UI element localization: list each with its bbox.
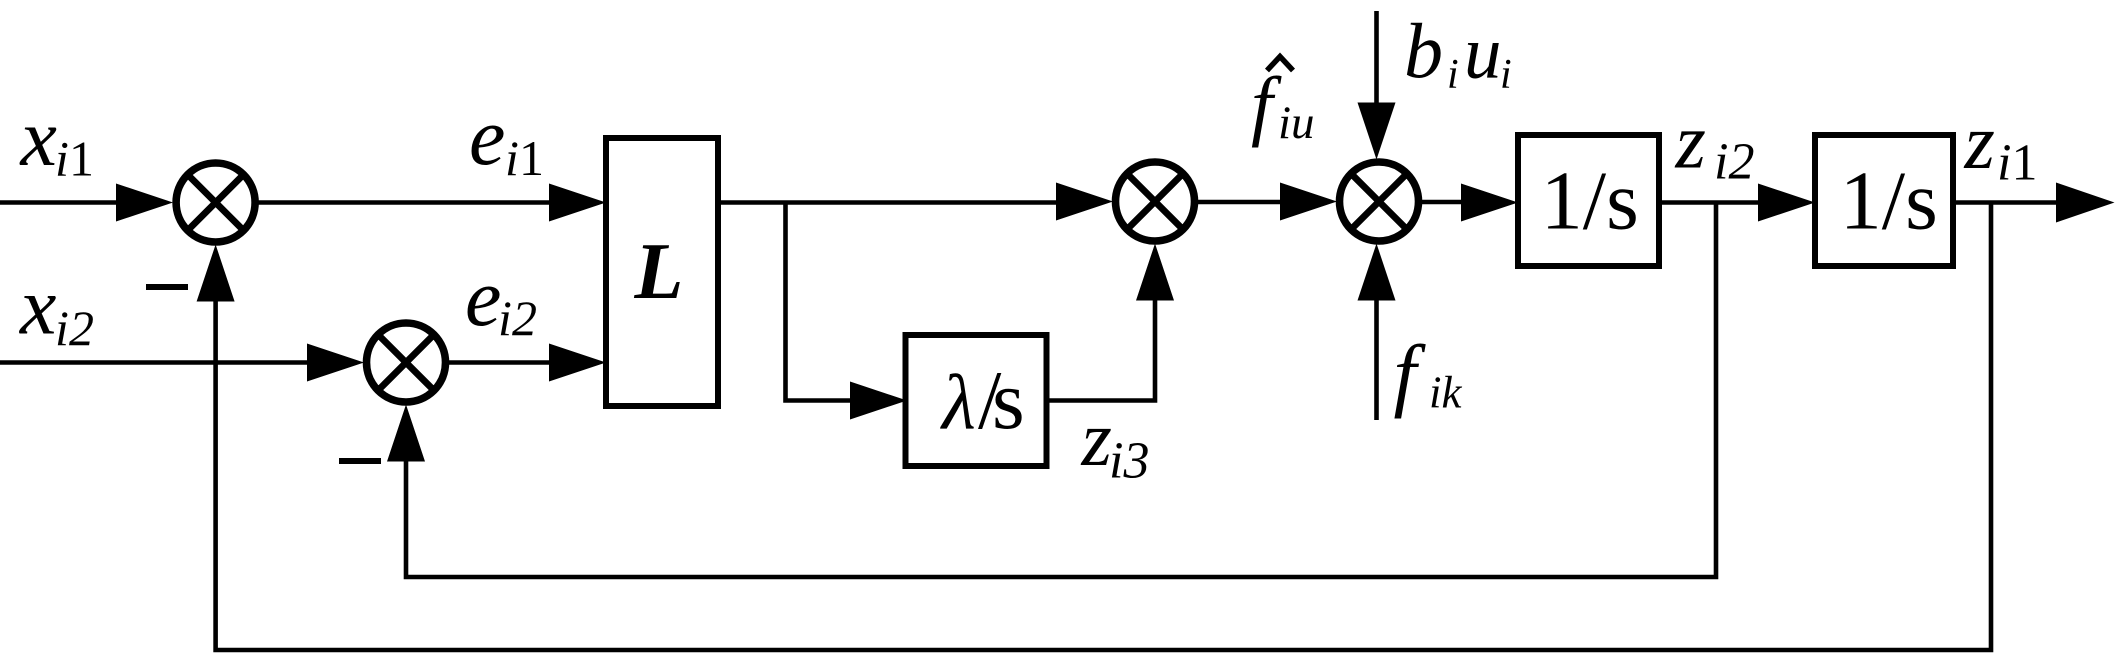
svg-text:λ: λ [940,359,976,446]
svg-text:i: i [1109,433,1123,490]
svg-text:i: i [505,130,519,186]
svg-text:e: e [469,91,505,182]
svg-text:i: i [55,131,69,187]
svg-text:1/s: 1/s [1840,155,1938,248]
svg-text:i: i [1500,52,1512,98]
svg-text:L: L [634,228,684,316]
svg-text:e: e [465,252,501,343]
svg-text:2: 2 [69,300,94,356]
svg-text:1/s: 1/s [1541,155,1639,248]
svg-text:3: 3 [1123,433,1150,490]
svg-text:1: 1 [519,130,544,186]
svg-text:i: i [1997,135,2011,192]
svg-text:1: 1 [2012,135,2038,192]
svg-text:2: 2 [1729,134,1755,191]
svg-text:b: b [1404,7,1443,94]
svg-text:s: s [992,354,1025,447]
svg-text:i: i [55,300,69,356]
svg-text:z: z [1675,98,1706,185]
svg-text:1: 1 [69,131,94,187]
svg-text:x: x [19,261,56,352]
svg-text:2: 2 [512,290,537,346]
svg-text:z: z [1964,98,1995,185]
svg-text:x: x [20,92,57,183]
svg-text:i: i [1447,52,1459,98]
svg-text:iu: iu [1278,97,1315,149]
svg-text:z: z [1081,395,1112,482]
svg-text:ik: ik [1429,368,1463,418]
svg-text:i: i [498,290,512,346]
svg-text:u: u [1464,12,1502,95]
svg-text:i: i [1714,134,1728,191]
